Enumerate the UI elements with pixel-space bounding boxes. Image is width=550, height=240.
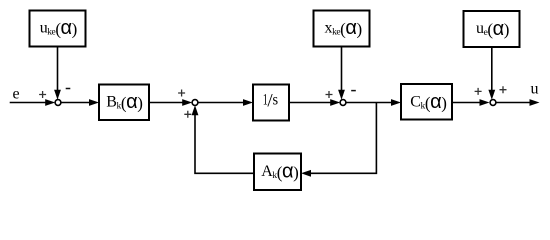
svg-text:Ck(α): Ck(α) bbox=[410, 91, 446, 113]
svg-text:u: u bbox=[531, 80, 539, 97]
svg-text:Bk(α): Bk(α) bbox=[106, 91, 142, 113]
svg-text:Ak(α): Ak(α) bbox=[261, 161, 298, 183]
svg-text:uke(α): uke(α) bbox=[40, 17, 77, 39]
svg-text:e: e bbox=[13, 85, 20, 102]
svg-text:ue(α): ue(α) bbox=[476, 18, 509, 40]
svg-text:s: s bbox=[273, 91, 278, 108]
svg-text:xke(α): xke(α) bbox=[325, 17, 362, 39]
